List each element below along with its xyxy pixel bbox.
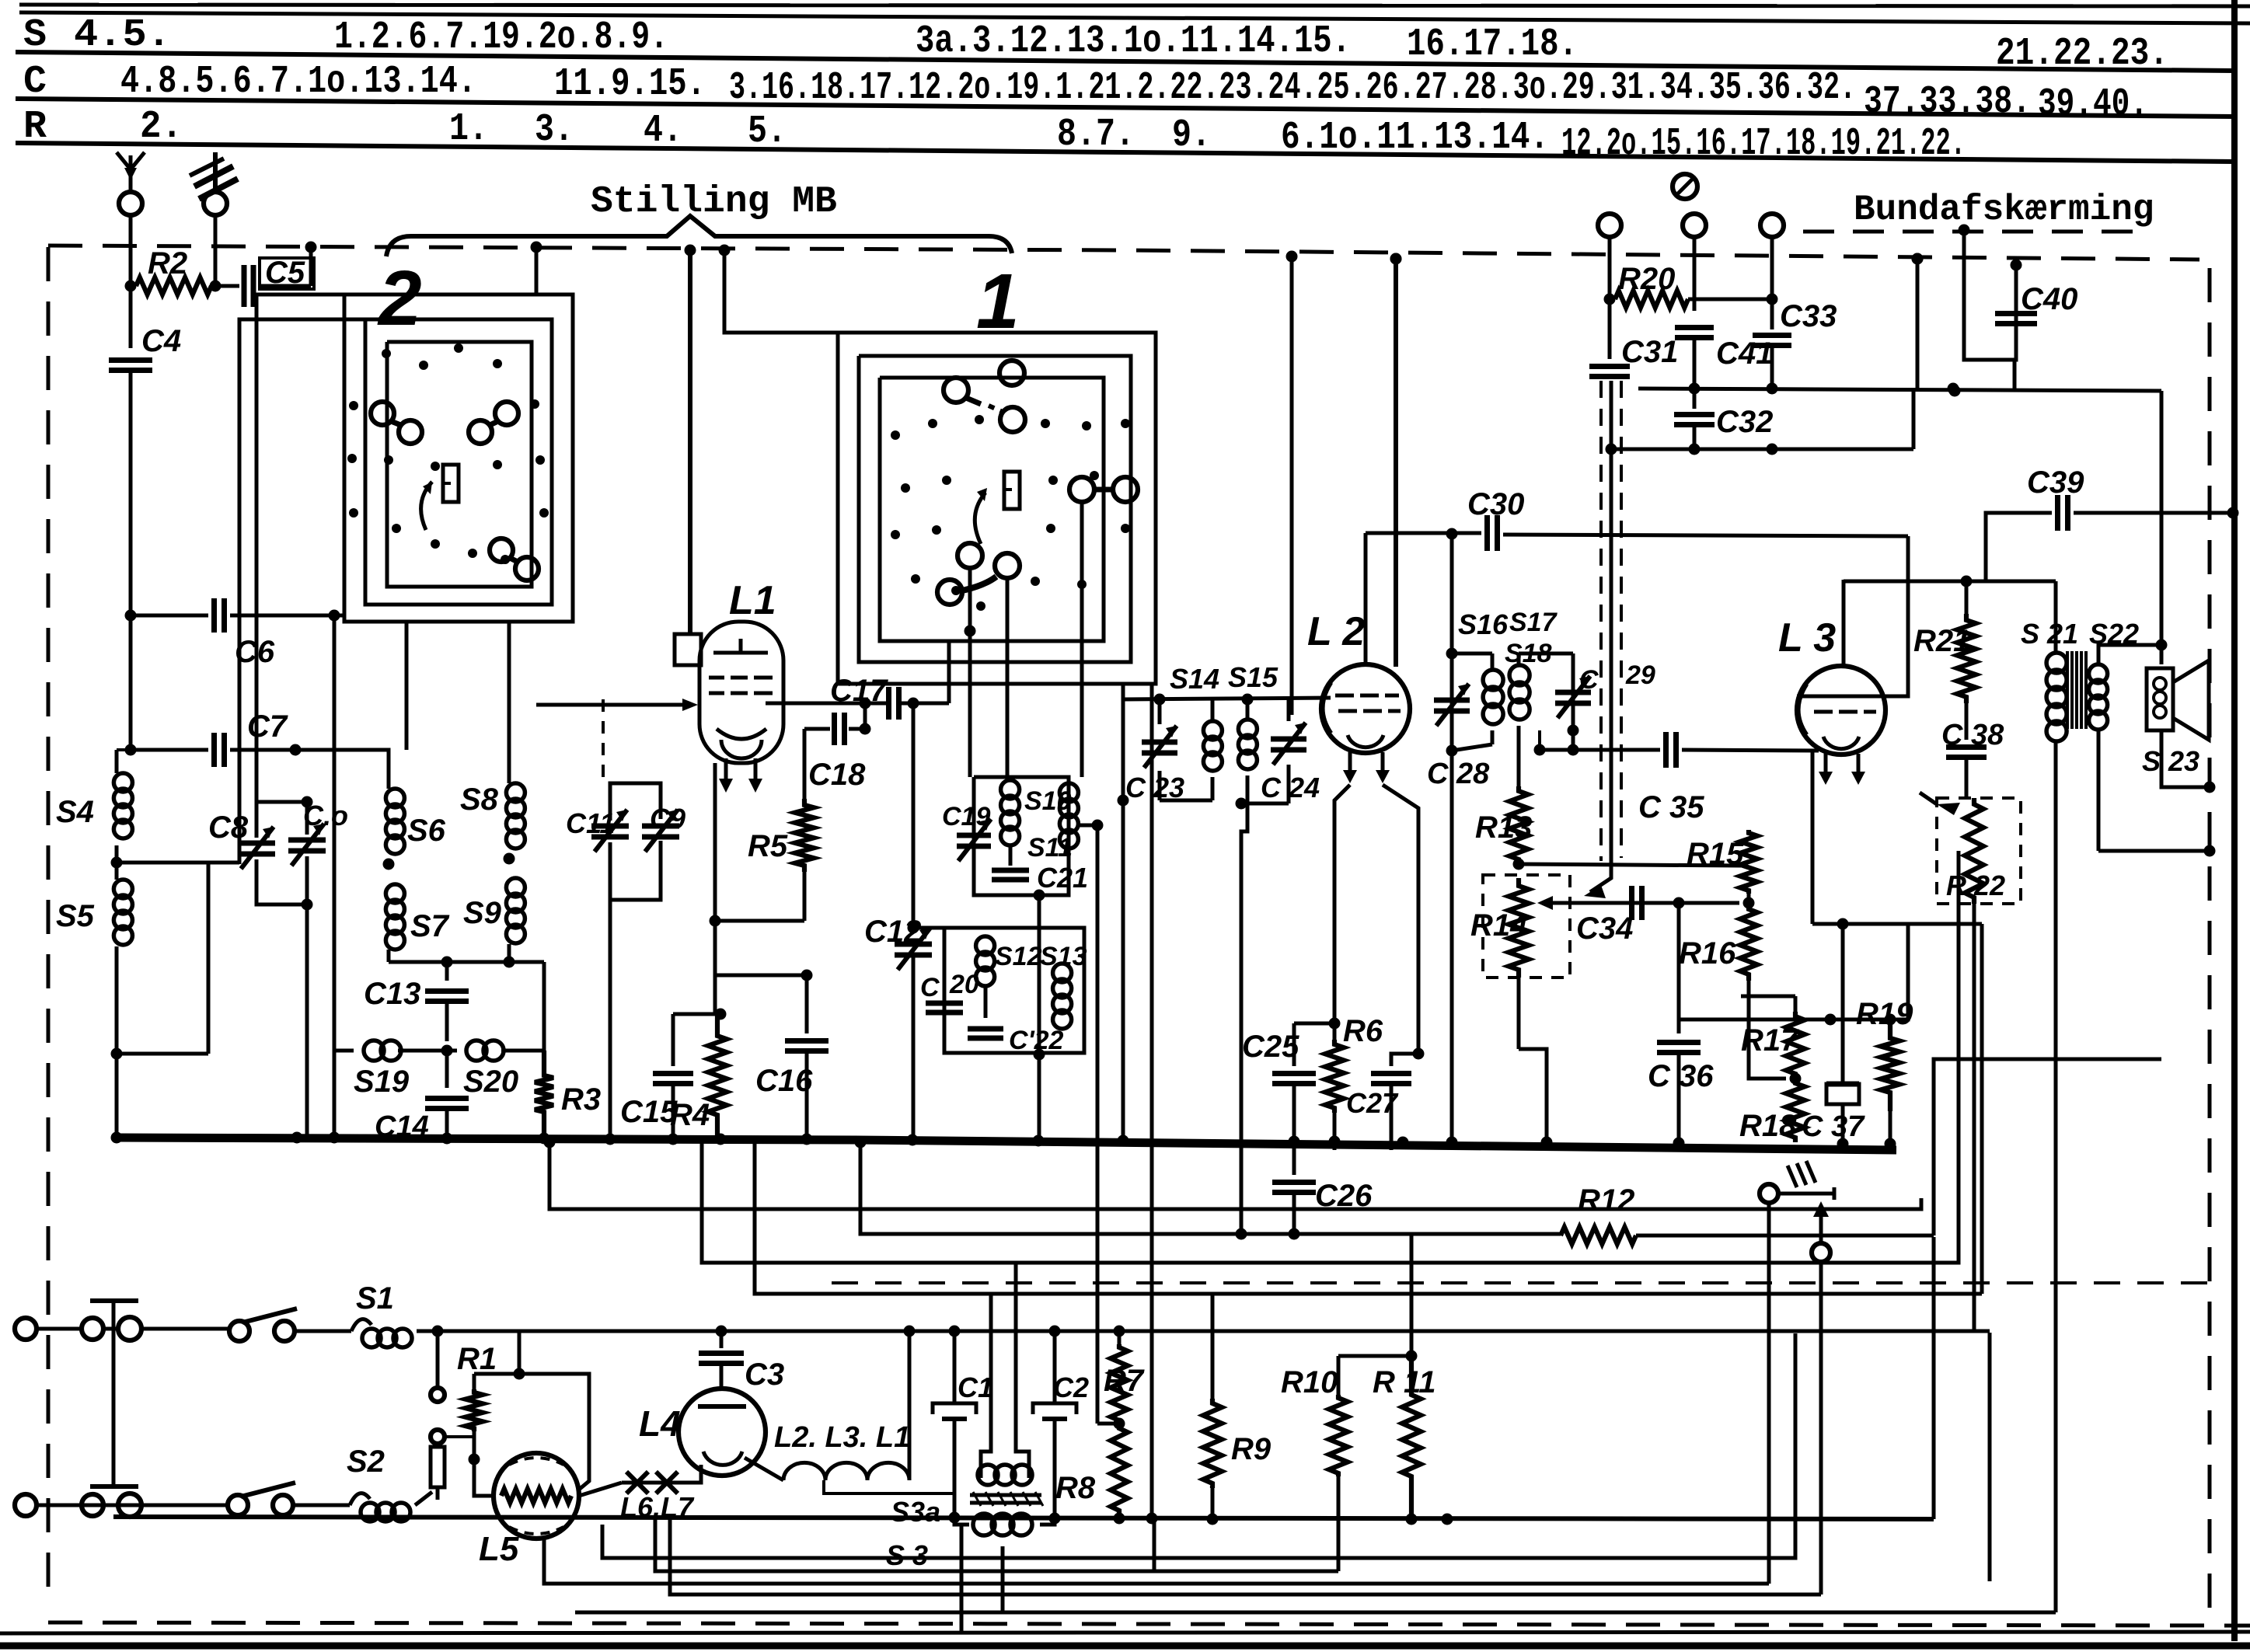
jack pair lower [431, 1430, 445, 1447]
trimmer box C11/C9 [610, 783, 661, 900]
wire jack1 drop [1767, 1203, 1771, 1584]
node S15 top [1242, 694, 1254, 706]
wire R5 bottom to R4 node [715, 919, 804, 923]
wire S16 to bus [1450, 751, 1454, 1148]
mains terminal 1c [118, 1317, 230, 1340]
svg-text:S 23: S 23 [2142, 745, 2199, 777]
bus node S5 [111, 1132, 123, 1144]
capacitor C31 [1589, 299, 1678, 377]
switch 1 rotor key [1004, 472, 1020, 509]
mains terminal 1a [15, 1318, 82, 1340]
wire R1 top [474, 1374, 589, 1489]
wire jack to R1 bottom [445, 1435, 474, 1438]
resistor R9 [1203, 1294, 1272, 1517]
svg-text:C 36: C 36 [1648, 1059, 1714, 1093]
capacitor C6 [131, 598, 334, 750]
wire C30 to L3 grid [1797, 536, 1908, 696]
node C7 right [290, 744, 302, 756]
wire R11 feed up [1410, 1234, 1414, 1356]
node C18 right [860, 723, 871, 735]
bus node osc [1033, 1135, 1045, 1147]
svg-text:S16: S16 [1458, 608, 1509, 640]
tube L1 cathode arc [717, 729, 766, 758]
fuse link [431, 1447, 445, 1500]
wire x1482 drop [1150, 684, 1154, 1517]
resistor R4 [670, 1014, 727, 1137]
capacitor C21 [992, 862, 1088, 894]
node C33 bottom [1767, 383, 1778, 395]
node bus2 x1482 [1146, 1513, 1158, 1525]
wire bottom run a [602, 1333, 1795, 1558]
wire bottom run c [670, 1515, 1821, 1594]
ground symbol [190, 152, 238, 199]
wire switch1 right drop [1154, 333, 1158, 684]
tube L2 lead top [1394, 259, 1398, 667]
potentiometer R14 [1470, 878, 1529, 978]
dial lamps L6 L7 [620, 1472, 695, 1523]
node R7-R8 [1114, 1418, 1125, 1430]
coil S6 [385, 789, 445, 854]
node S22 top [2156, 640, 2168, 651]
wire C15 link [673, 1012, 715, 1016]
tube L4 cathode arc [703, 1452, 742, 1465]
resistor R10 [1281, 1356, 1348, 1571]
svg-text:R20: R20 [1618, 262, 1675, 296]
svg-text:S8: S8 [460, 782, 499, 817]
svg-text:12.2o.15.16.17.18.19.21.22.: 12.2o.15.16.17.18.19.21.22. [1561, 122, 1966, 166]
oscillator box 2 outline [944, 928, 1084, 1053]
wire S7/S9 bottom link [389, 960, 544, 964]
resistor R5 [748, 729, 814, 921]
line capacitor [90, 1301, 138, 1486]
capacitor C41 [1675, 328, 1773, 389]
svg-text:C21: C21 [1037, 862, 1088, 894]
shielded cable core [1584, 381, 1611, 898]
capacitor C36 [1648, 903, 1714, 1151]
svg-text:C33: C33 [1780, 299, 1837, 333]
resistor R16 [1679, 903, 1757, 981]
resistor R8 [1055, 1424, 1128, 1515]
node C32 bottom [1689, 444, 1701, 455]
table rule under C row [16, 99, 2235, 117]
node C35 mid [1568, 744, 1579, 756]
wire bottom run b [544, 1515, 1769, 1584]
svg-text:S12: S12 [995, 942, 1042, 971]
shield box left dashed border [47, 247, 51, 1591]
shielded cable dashes right [1620, 381, 1623, 858]
wire R16 down [1749, 981, 1786, 1079]
wire S22 top [2098, 645, 2161, 657]
tube L3 heater arrows [1819, 754, 1865, 785]
svg-text:R13: R13 [1475, 810, 1532, 845]
shield box top dashed border [48, 246, 2199, 260]
capacitor C16 [755, 975, 828, 1141]
wire R14 to bus [1519, 978, 1547, 1150]
wire switch2 left A [256, 295, 344, 802]
bus node R4 [715, 1134, 727, 1145]
svg-text:C8: C8 [208, 810, 249, 845]
row C labels [23, 60, 2148, 127]
wire R10 R11 top [1338, 1354, 1411, 1358]
mechanical link dashed [832, 1281, 2210, 1284]
resistor R20 [1615, 262, 1772, 308]
node C37 top [1837, 918, 1849, 930]
node S14 top [1154, 694, 1166, 706]
tube L1 anode bar [713, 639, 768, 653]
transformer core S21/S22 [2067, 651, 2086, 729]
switch 2 rotor key [443, 465, 459, 502]
wire B+ drop [1916, 259, 1920, 389]
node C5 top [305, 242, 317, 253]
node dashed L2 tap [1390, 253, 1402, 265]
capacitor C39 [1986, 465, 2233, 581]
svg-text:S9: S9 [463, 896, 502, 930]
tube L1 grid dashes [709, 678, 773, 693]
wire choke up [908, 1331, 912, 1480]
trimmer box C8/C.o [256, 802, 307, 904]
capacitor C18 [804, 713, 866, 792]
R22 wiper arrow [1920, 793, 1960, 815]
wire osc mid vertical [1038, 895, 1041, 1142]
wire y1312 run [1679, 924, 1908, 1019]
svg-text:C 37: C 37 [1802, 1110, 1865, 1143]
resistor R7 [1104, 1331, 1145, 1424]
wire C16 top link [715, 974, 807, 978]
wire speaker return [2161, 730, 2210, 787]
node bus2 C2 [1049, 1513, 1061, 1525]
antenna symbol [117, 152, 145, 191]
svg-text:11.9.15.: 11.9.15. [554, 62, 706, 106]
thick lead to L1 [688, 250, 692, 636]
node S5 tap [111, 1048, 123, 1060]
svg-text:R 11: R 11 [1373, 1365, 1436, 1399]
svg-text:16.17.18.: 16.17.18. [1407, 23, 1578, 67]
svg-text:S2: S2 [347, 1445, 385, 1479]
node antenna-R2 [125, 281, 137, 292]
node C13 top [441, 957, 453, 968]
node osc feed a [965, 626, 976, 637]
coil S21 [2021, 581, 2078, 1612]
wire L1 cathode down [713, 763, 717, 921]
svg-text:C16: C16 [755, 1064, 813, 1098]
coil S10 [1001, 780, 1072, 866]
wire L2 heater right down [1383, 785, 1418, 1054]
wire S22 return [2098, 849, 2210, 853]
switch 1 contact pair a [944, 361, 1025, 432]
jack circle lower [1812, 1243, 1830, 1262]
svg-text:S15: S15 [1228, 661, 1278, 693]
node R21 top [1961, 576, 1973, 587]
svg-text:3a.3.12.13.1o.11.14.15.: 3a.3.12.13.1o.11.14.15. [916, 19, 1351, 64]
node S4-S5 [111, 857, 123, 869]
svg-text:C 28: C 28 [1427, 758, 1490, 790]
svg-text:L 3: L 3 [1778, 615, 1836, 660]
bus node C14 [441, 1133, 453, 1145]
wire antenna down [129, 246, 133, 286]
bus node S-C9 [605, 1134, 616, 1145]
svg-text:R17: R17 [1741, 1023, 1799, 1058]
capacitor C27 [1346, 1054, 1418, 1150]
node C40 left [1959, 225, 1970, 236]
node C15-R4 [715, 1009, 727, 1020]
node R1 bottom [469, 1454, 480, 1466]
capacitor C22 [968, 1026, 1064, 1055]
svg-text:C30: C30 [1467, 487, 1524, 521]
tube L4 plate bar [698, 1404, 746, 1409]
coil S13 [1040, 942, 1087, 1029]
wire S3 sec drop [961, 1525, 1003, 1632]
svg-text:R12: R12 [1578, 1183, 1634, 1218]
resistor R6 [1325, 1014, 1383, 1150]
svg-text:R4: R4 [670, 1098, 710, 1132]
trimmer capacitor C29 [1555, 660, 1655, 718]
wire jack2 drop [1819, 1262, 1823, 1594]
wire L1 grid feed [536, 703, 690, 707]
wire C6 node down to bus [333, 615, 337, 1137]
bus node C12 [907, 1134, 919, 1146]
svg-text:C: C [23, 60, 47, 104]
node C6 left [125, 610, 137, 622]
terminal B [1683, 214, 1706, 311]
svg-text:C18: C18 [808, 758, 866, 792]
wire S11 B+ drop [1096, 825, 1100, 1424]
wire R1b to L5 [474, 1459, 494, 1496]
capacitor C4 [109, 286, 181, 615]
wire C7 branch switch2 [405, 622, 409, 750]
svg-text:R1: R1 [457, 1342, 497, 1376]
capacitor C40 [1964, 230, 2077, 360]
wire C12 down to bus [912, 956, 916, 1142]
tube L1 envelope [699, 622, 783, 763]
resistor R1 [457, 1342, 497, 1459]
choke S2 [347, 1445, 432, 1521]
coil S19 [334, 1040, 426, 1099]
capacitor C15 [620, 1014, 693, 1141]
wire band feed down [1290, 256, 1294, 715]
svg-text:Bundafskærming: Bundafskærming [1854, 190, 2154, 230]
label L1 [729, 578, 776, 623]
node C26 bottom [1289, 1229, 1300, 1240]
wire osc box feed b [1006, 578, 1010, 777]
wire C6 to switch2 bottom [334, 614, 344, 618]
resistor R21 [1913, 581, 1976, 703]
wire S19 left leg [333, 1041, 337, 1051]
switch 1 contact pair c [937, 543, 1020, 605]
coil S5 [56, 845, 132, 1136]
node anode-C18 [860, 698, 871, 709]
node y1556 start [544, 1137, 556, 1148]
svg-text:C19: C19 [942, 802, 990, 831]
wire decoupling low [1611, 389, 1913, 449]
tube L2 grid dashes [1335, 695, 1401, 711]
phone input symbol [1673, 174, 1697, 199]
switch 2 rotation arrow [421, 482, 432, 530]
svg-text:Stilling MB: Stilling MB [591, 181, 837, 223]
node C36 top [1673, 897, 1685, 909]
wire C23 drop [1122, 684, 1125, 1142]
node C35 left [1534, 744, 1546, 756]
label S3 [886, 1539, 928, 1571]
svg-text:S14: S14 [1170, 663, 1219, 695]
wire run y1665 [755, 1142, 1982, 1294]
node cable tap [1606, 444, 1617, 455]
wire C34 line [1585, 901, 1739, 905]
rotary switch 1 inner box [880, 378, 1104, 641]
node mid right [1948, 383, 1959, 395]
label S3a [891, 1496, 940, 1528]
wire S16 feed [1450, 534, 1454, 653]
svg-text:20: 20 [949, 970, 979, 999]
svg-text:R15: R15 [1687, 837, 1744, 871]
bus node C15 [668, 1134, 679, 1145]
svg-text:S3a: S3a [891, 1496, 940, 1528]
node C41 bottom [1689, 383, 1701, 395]
tube L2 envelope [1321, 664, 1410, 753]
svg-text:S17: S17 [1509, 608, 1558, 637]
wire anode branch down [863, 703, 867, 729]
trimmer capacitor C28 [1427, 684, 1490, 790]
node S6-S7 [383, 859, 395, 870]
wire run y1588 [860, 1142, 1561, 1234]
switch S2 blade [228, 1483, 350, 1515]
svg-text:S20: S20 [463, 1065, 518, 1099]
node S8-S9 [504, 853, 515, 865]
wire L3 plate line [1842, 580, 1846, 667]
node C6 right [329, 610, 340, 622]
svg-text:39.40.: 39.40. [2038, 82, 2148, 127]
svg-text:C39: C39 [2027, 465, 2084, 500]
wire antenna to S4 [117, 750, 131, 773]
svg-text:S4: S4 [56, 795, 94, 829]
resistor R2 [136, 246, 211, 295]
wire L5 right [579, 1483, 622, 1496]
choke S1 [351, 1281, 438, 1347]
node y1312 a [1825, 1014, 1837, 1026]
capacitor C3 [699, 1331, 784, 1392]
node bus2 C1 [949, 1512, 961, 1524]
svg-text:L1: L1 [729, 578, 776, 623]
shielded grid lead dashes [603, 699, 698, 781]
capacitor C26 [1272, 1142, 1373, 1234]
resistor R17 [1741, 1012, 1805, 1079]
wire S4 tap [117, 861, 239, 865]
antenna terminal [119, 192, 142, 246]
label L3 [1778, 615, 1836, 660]
schematic right border [2231, 0, 2238, 1641]
svg-text:R2: R2 [148, 246, 187, 281]
capacitor C34 [1576, 886, 1642, 946]
tube L3 grid dashes [1811, 696, 1876, 712]
svg-text:L5: L5 [479, 1530, 519, 1568]
bus node R3 [539, 1133, 550, 1145]
svg-text:C15: C15 [620, 1095, 678, 1129]
svg-text:S1: S1 [356, 1281, 394, 1316]
label switch 2 [377, 255, 422, 342]
node R17-R18 [1790, 1073, 1802, 1085]
wire osc box feed c [1080, 502, 1084, 777]
mains terminal 1b [82, 1318, 118, 1340]
rotary switch 1 contact dots [891, 415, 1130, 611]
capacitor C25 [1242, 1023, 1334, 1150]
switch 2 contact pair b [469, 402, 518, 444]
node bus2 R9 [1207, 1514, 1219, 1525]
wire L3 cathode down [1811, 751, 1815, 924]
node trimmer box bottom [302, 899, 313, 911]
wire S11 tap [1078, 824, 1097, 828]
bus node C37 [1837, 1138, 1849, 1150]
svg-text:C5: C5 [265, 256, 305, 290]
node C14 top [441, 1045, 453, 1057]
svg-text:C40: C40 [2021, 282, 2077, 316]
oscillator box 1 outline [974, 777, 1069, 895]
svg-text:R19: R19 [1856, 997, 1913, 1031]
svg-text:R9: R9 [1231, 1432, 1272, 1466]
svg-text:R7: R7 [1104, 1364, 1145, 1398]
wire C7 to S6 top [295, 750, 389, 789]
trimmer capacitor C.o [288, 800, 348, 866]
switch 2 contact pair a [371, 402, 422, 444]
capacitor C2 [1033, 1331, 1089, 1517]
switch 2 contact pair c [490, 538, 539, 580]
Stilling MB title [591, 181, 837, 223]
coil S8 [460, 782, 525, 849]
label L2 [1307, 609, 1365, 654]
node R13-R14 [1513, 859, 1525, 870]
svg-text:L 2: L 2 [1307, 609, 1365, 654]
svg-text:C9: C9 [650, 803, 685, 835]
capacitor C32 [1674, 389, 1773, 451]
node C17 right [908, 698, 919, 709]
wire L2 grid corner [1364, 533, 1368, 664]
svg-text:S7: S7 [410, 909, 450, 943]
svg-text:6.1o.11.13.14.: 6.1o.11.13.14. [1281, 116, 1549, 160]
wire L1 anode to C17 [783, 702, 886, 706]
node bus2 R11 [1406, 1514, 1418, 1525]
resistor R15 [1687, 830, 1757, 903]
capacitor C20 [920, 970, 979, 1012]
trimmer capacitor C19 [942, 802, 991, 861]
wire R13 node right [1519, 864, 1741, 866]
svg-text:S6: S6 [407, 814, 446, 848]
node R11 top [1406, 1351, 1418, 1362]
bus node C6 [329, 1132, 340, 1144]
node S1 out [432, 1326, 444, 1337]
svg-text:4.: 4. [644, 109, 682, 153]
node C3 top [716, 1326, 727, 1337]
jack circle upper [1760, 1184, 1834, 1203]
node bus2 end [1442, 1514, 1453, 1525]
svg-text:9.: 9. [1172, 113, 1211, 158]
wire R7R8 tap [1097, 1422, 1119, 1426]
svg-text:2.: 2. [140, 105, 183, 149]
capacitor C37 [1802, 924, 1865, 1152]
node ground-R2 [210, 281, 222, 292]
node R1 top [514, 1368, 525, 1380]
node C7 left [125, 744, 137, 756]
svg-text:C: C [920, 973, 940, 1002]
svg-text:S18: S18 [1505, 639, 1552, 668]
svg-text:C'22: C'22 [1009, 1026, 1064, 1055]
node S16 top [1446, 648, 1458, 660]
bus node trimmer [291, 1132, 303, 1144]
wire cath drop right [1980, 924, 1984, 1294]
grid lead arrow [682, 699, 698, 711]
wire run y1625 [702, 851, 1959, 1263]
wire S20 right leg to R3 [542, 962, 546, 1051]
tube L1 grid cap box [675, 634, 701, 665]
resistor R11 [1373, 1356, 1436, 1515]
node L2 top [1390, 253, 1402, 265]
